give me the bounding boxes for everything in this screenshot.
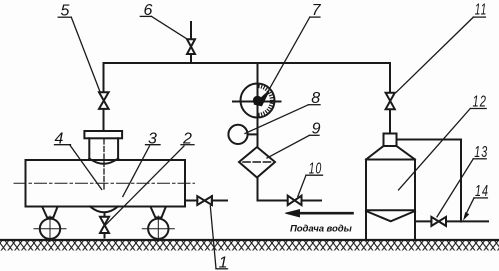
reservoir body xyxy=(366,159,415,161)
valve 1 xyxy=(197,196,212,205)
gauge 8 small circle xyxy=(228,125,247,144)
svg-text:3: 3 xyxy=(148,131,158,148)
hopper top line xyxy=(366,209,415,211)
sump arc xyxy=(90,207,118,213)
svg-text:Подача воды: Подача воды xyxy=(290,224,353,235)
filter dashed line xyxy=(243,161,271,163)
wire: vent branch up xyxy=(190,54,192,63)
svg-text:1: 1 xyxy=(219,255,229,271)
valve 13 xyxy=(431,217,446,226)
wire: top pipe xyxy=(104,62,391,64)
leader 9 xyxy=(267,135,310,158)
leader 11 xyxy=(396,17,473,92)
svg-text:6: 6 xyxy=(144,2,154,19)
svg-text:13: 13 xyxy=(474,144,488,161)
leader 8 xyxy=(245,105,309,134)
leader 5 xyxy=(71,17,100,92)
dome base arc xyxy=(89,159,118,164)
tank car centerline xyxy=(14,182,195,184)
hidden fill pipe (dashed) xyxy=(103,139,105,191)
wire: bottom pipe right of filter xyxy=(258,200,288,202)
axle box left xyxy=(42,207,58,218)
wire: right drop to reservoir xyxy=(389,63,391,93)
wire: gauge branch vertical xyxy=(257,63,259,84)
wire: gauge 8 connector xyxy=(248,133,258,135)
leader 10 xyxy=(298,175,306,196)
svg-text:2: 2 xyxy=(182,131,193,148)
leader 1 xyxy=(210,206,216,269)
leader 3 xyxy=(123,146,150,197)
svg-text:4: 4 xyxy=(55,131,65,148)
wire: horizontal line through gauge xyxy=(233,101,281,103)
svg-text:14: 14 xyxy=(475,183,489,200)
axle box right xyxy=(150,207,166,218)
valve 5 xyxy=(99,92,109,109)
reservoir cone shoulder xyxy=(366,146,415,160)
svg-text:11: 11 xyxy=(475,2,488,19)
flow arrow xyxy=(299,212,353,215)
leader 4 xyxy=(70,145,102,189)
leader 6 xyxy=(152,16,187,38)
wire: left drop to tank car dome xyxy=(103,63,105,92)
leader 12 xyxy=(399,109,471,191)
svg-text:7: 7 xyxy=(312,2,322,19)
manometer scale ticks xyxy=(259,84,274,117)
valve 6 xyxy=(187,39,195,54)
ground hatch band xyxy=(0,241,499,251)
leader 14 with arrow xyxy=(465,198,474,217)
valve 2 (drain) xyxy=(100,217,109,233)
svg-text:12: 12 xyxy=(473,94,488,111)
dome flange xyxy=(84,131,122,138)
reservoir neck cap xyxy=(384,134,397,147)
ground line xyxy=(0,239,499,241)
leader 13 xyxy=(437,159,473,217)
hopper funnel xyxy=(366,211,415,221)
wire: tank car fill pipe xyxy=(185,200,197,202)
svg-text:10: 10 xyxy=(309,160,323,177)
wire: overflow line xyxy=(397,140,462,222)
svg-text:5: 5 xyxy=(61,3,71,20)
filter F9 diamond xyxy=(239,147,275,178)
manometer needle xyxy=(255,92,269,106)
leader 2 xyxy=(106,146,184,225)
dome neck xyxy=(88,138,90,158)
wheel left xyxy=(40,219,60,239)
wire: outlet pipe xyxy=(415,220,431,222)
wire: sump to valve 2 xyxy=(104,213,106,217)
leader 7 xyxy=(266,17,310,95)
valve 11 xyxy=(386,93,395,110)
valve 10 xyxy=(288,196,302,205)
manometer U7 dial xyxy=(241,84,275,118)
wheel right xyxy=(148,219,168,239)
svg-text:8: 8 xyxy=(311,90,321,107)
tank car body xyxy=(26,160,186,207)
svg-text:9: 9 xyxy=(312,120,322,137)
